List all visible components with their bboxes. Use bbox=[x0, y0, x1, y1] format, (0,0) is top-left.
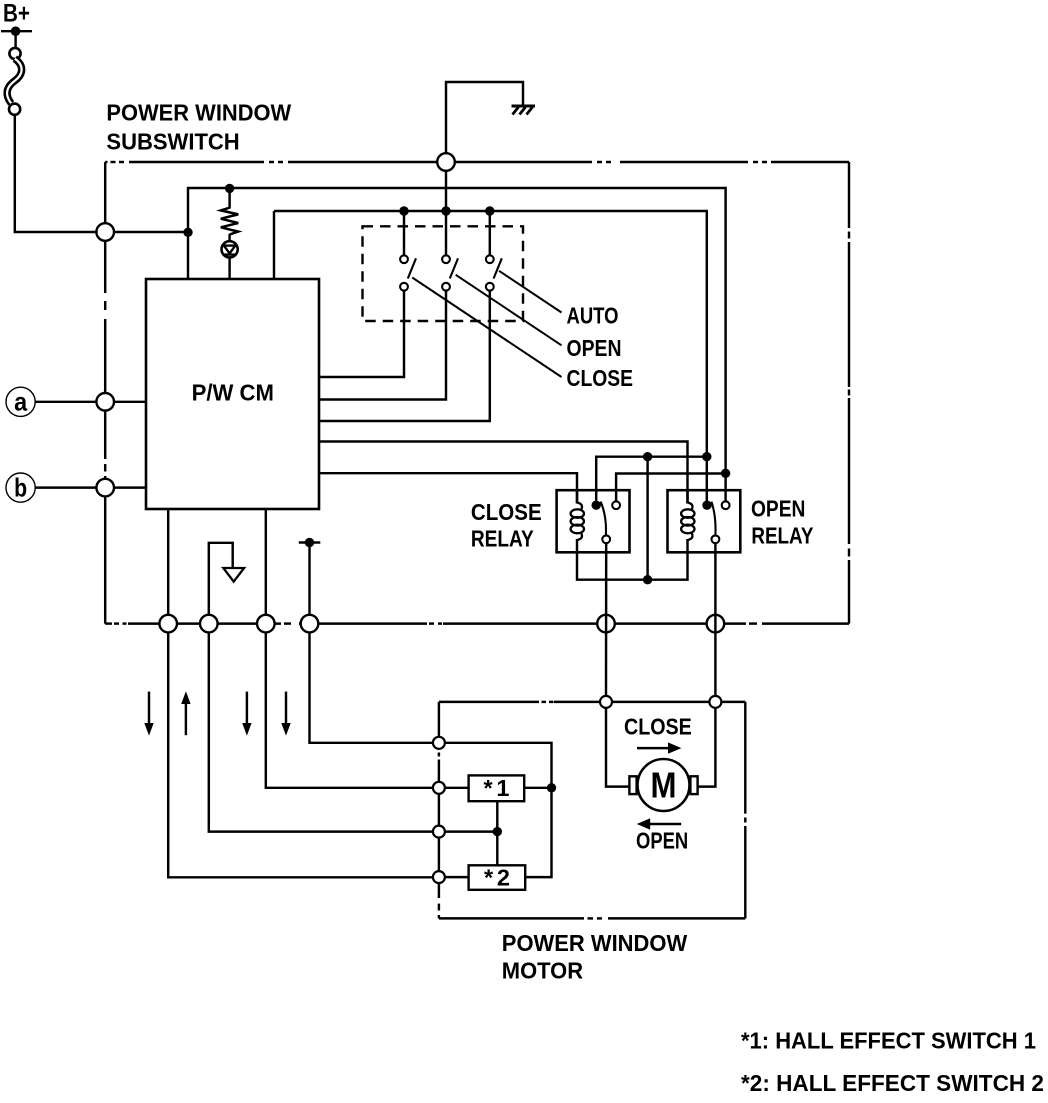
motor M1 right brush bbox=[690, 776, 697, 794]
junction dot (309.5,542.5) bbox=[305, 538, 314, 547]
subswitch boundary top (chain line) bbox=[105, 161, 849, 163]
wire P/W CM output col1 bbox=[167, 509, 169, 616]
OPEN switch S2 bottom contact bbox=[442, 283, 450, 291]
leader line CLOSE bbox=[412, 278, 561, 378]
wire relay NO bus y=473.5 bbox=[616, 474, 726, 502]
relay K2 moving contact bbox=[712, 535, 720, 543]
svg-text:P/W CM: P/W CM bbox=[192, 379, 274, 405]
wire connector b to P/W CM bbox=[35, 486, 146, 488]
junction dot (647.6,579.7) bbox=[643, 575, 652, 584]
wire bus y=211 (switch bus) bbox=[274, 211, 707, 504]
wire col4 to motor (hall supply) bbox=[310, 632, 434, 742]
wire fuse to subswitch border bbox=[15, 115, 97, 232]
connector circle col2 on bottom boundary bbox=[200, 615, 218, 633]
junction dot switch bus x=489.8 bbox=[485, 206, 494, 215]
junction dot (497.3,831.6) bbox=[493, 827, 502, 836]
label CLOSE bbox=[567, 365, 634, 391]
wire hall1-hall2 link bbox=[496, 801, 498, 865]
relay K2 coil bbox=[681, 490, 694, 553]
CLOSE switch S1 feed wire bbox=[403, 211, 405, 256]
CLOSE switch S1 output wire bbox=[319, 291, 404, 377]
svg-text:OPEN: OPEN bbox=[567, 335, 622, 361]
wire hall2 input bbox=[445, 876, 469, 878]
wire hall supply riser bbox=[445, 743, 552, 877]
svg-text:SUBSWITCH: SUBSWITCH bbox=[106, 129, 239, 155]
switch group dashed outline bbox=[363, 226, 524, 321]
CLOSE switch S1 arm bbox=[408, 258, 416, 278]
connector circle hall supply on motor boundary bbox=[433, 737, 445, 749]
current arrow 4 (down) bbox=[281, 692, 290, 736]
svg-text:MOTOR: MOTOR bbox=[502, 957, 583, 983]
motor boundary left (chain line) bbox=[438, 702, 440, 919]
connector circle a on boundary bbox=[96, 393, 114, 411]
wire stub down col4 bbox=[308, 543, 310, 617]
relay K1 common contact bbox=[592, 501, 601, 510]
connector circle B+ on boundary bbox=[96, 223, 114, 241]
wire relay common bus y=456.7 bbox=[596, 457, 707, 501]
svg-text:*2: *2 bbox=[484, 864, 510, 890]
wire LED to P/W CM bbox=[228, 257, 230, 280]
motor boundary right (chain line) bbox=[744, 702, 746, 919]
junction dot at B+ terminal bbox=[11, 26, 21, 36]
wire center riser x=647.6 bbox=[646, 457, 648, 580]
hall effect switch *2 box bbox=[469, 865, 526, 890]
OPEN switch S2 output wire bbox=[319, 291, 446, 400]
fuse F1 element (S-curve) bbox=[7, 59, 22, 104]
wire internal ground hook bbox=[209, 543, 233, 616]
relay K1 (CLOSE RELAY) box bbox=[557, 490, 630, 552]
current arrow 2 (up) bbox=[181, 691, 190, 735]
wire motor open-side bbox=[698, 708, 716, 787]
wire relay coil tie y=579.7 bbox=[577, 552, 688, 579]
motor M1 letter bbox=[651, 765, 677, 806]
motor boundary top (chain line) bbox=[439, 701, 745, 703]
relay K2 common contact bbox=[702, 501, 711, 510]
connector circle col1 on bottom boundary bbox=[159, 615, 177, 633]
wire motor close-side bbox=[606, 708, 629, 787]
junction dot (229.6,188) bbox=[225, 184, 234, 193]
connector a outer circle bbox=[6, 387, 35, 416]
wire stub with junction bbox=[299, 541, 321, 543]
label POWER WINDOW SUBSWITCH bbox=[106, 100, 292, 155]
ground arrow symbol bbox=[223, 568, 244, 582]
connector b letter bbox=[14, 472, 27, 502]
wire hall mid tap bbox=[445, 830, 497, 832]
svg-text:B+: B+ bbox=[3, 0, 30, 28]
connector circle open-side on motor boundary bbox=[709, 696, 721, 708]
AUTO switch S3 top contact bbox=[486, 255, 494, 263]
junction dot switch bus x=446 bbox=[441, 206, 450, 215]
motor boundary bottom (chain line) bbox=[439, 917, 745, 919]
resistor R1 (zigzag) bbox=[221, 208, 238, 235]
relay K1 armature bbox=[601, 502, 606, 535]
label OPEN RELAY bbox=[751, 496, 814, 549]
hall effect switch *2 label bbox=[484, 864, 510, 890]
wire col1 to motor (hall 2 low) bbox=[168, 632, 433, 877]
label OPEN (motor direction) bbox=[636, 827, 688, 853]
wire close-relay contact to motor bbox=[605, 543, 608, 696]
label P/W CM bbox=[192, 379, 274, 405]
close direction arrow bbox=[637, 742, 681, 753]
current arrow 3 (down) bbox=[242, 692, 251, 736]
current arrow 1 (down) bbox=[144, 692, 153, 736]
junction dot (706.8,456.7) bbox=[702, 452, 711, 461]
connector circle col3 on bottom boundary bbox=[257, 615, 275, 633]
connector circle b on boundary bbox=[96, 479, 114, 497]
svg-text:RELAY: RELAY bbox=[471, 526, 534, 552]
connector circle on top boundary bbox=[437, 153, 455, 171]
wire B+ terminal bar bbox=[1, 30, 32, 32]
label POWER WINDOW MOTOR bbox=[502, 930, 688, 984]
open direction arrow bbox=[637, 818, 681, 829]
relay K2 NO contact bbox=[722, 501, 730, 509]
OPEN switch S2 feed wire bbox=[445, 211, 447, 256]
svg-text:POWER WINDOW: POWER WINDOW bbox=[502, 930, 688, 956]
leader line OPEN bbox=[456, 275, 562, 346]
svg-text:POWER WINDOW: POWER WINDOW bbox=[106, 100, 292, 126]
svg-text:*1: HALL EFFECT SWITCH 1: *1: HALL EFFECT SWITCH 1 bbox=[741, 1027, 1036, 1053]
AUTO switch S3 output wire bbox=[319, 291, 490, 421]
footnote hall effect switch 2 bbox=[741, 1070, 1044, 1096]
wire top junction down to switch bus bbox=[445, 162, 447, 211]
svg-text:OPEN: OPEN bbox=[751, 496, 805, 522]
wire col3 to motor (hall 1) bbox=[266, 632, 433, 787]
wire hall1 input bbox=[445, 787, 469, 789]
junction dot (647.6,456.7) bbox=[643, 452, 652, 461]
hall effect switch *1 box bbox=[469, 775, 525, 801]
wire P/W CM to open-relay coil bbox=[319, 442, 688, 504]
CLOSE switch S1 top contact bbox=[400, 255, 408, 263]
svg-text:CLOSE: CLOSE bbox=[624, 714, 692, 740]
wire bus y=188 to open-relay contact bbox=[188, 188, 726, 474]
relay K1 coil bbox=[571, 490, 584, 553]
junction dot (551.5,787.8) bbox=[547, 783, 556, 792]
relay K1 moving contact bbox=[602, 535, 610, 543]
wire P/W CM to close-relay coil bbox=[319, 473, 577, 503]
relay K1 NO contact bbox=[612, 501, 620, 509]
connector circle open-motor on bottom boundary bbox=[707, 615, 725, 633]
motor M1 left brush bbox=[629, 776, 636, 794]
AUTO switch S3 bottom contact bbox=[486, 283, 494, 291]
subswitch boundary left (chain line) bbox=[104, 162, 106, 624]
connector circle hall2 on motor boundary bbox=[433, 871, 445, 883]
wire riser x=274 to P/W CM bbox=[273, 211, 275, 280]
wire connector a to P/W CM bbox=[35, 401, 146, 403]
label AUTO bbox=[567, 303, 619, 329]
OPEN switch S2 top contact bbox=[442, 255, 450, 263]
OPEN switch S2 arm bbox=[450, 258, 458, 278]
fuse F1 (bottom terminal) bbox=[9, 104, 20, 115]
wire open-relay NO riser bbox=[724, 474, 726, 502]
svg-text:a: a bbox=[14, 387, 27, 417]
ground (chassis) symbol bbox=[512, 106, 536, 115]
junction dot (725.6,473.5) bbox=[721, 469, 730, 478]
svg-text:AUTO: AUTO bbox=[567, 303, 619, 329]
footnote hall effect switch 1 bbox=[741, 1027, 1036, 1053]
AUTO switch S3 arm bbox=[494, 258, 502, 278]
fuse F1 (top terminal) bbox=[9, 48, 20, 59]
node B+ label bbox=[3, 0, 30, 28]
wire top junction to ground bbox=[446, 82, 523, 162]
wire P/W CM output col3 bbox=[265, 509, 267, 616]
relay K2 armature bbox=[711, 502, 715, 535]
AUTO switch S3 feed wire bbox=[489, 211, 491, 256]
svg-text:RELAY: RELAY bbox=[751, 522, 813, 548]
wire open-relay contact to motor bbox=[714, 543, 716, 696]
label OPEN bbox=[567, 335, 622, 361]
leader line AUTO bbox=[499, 271, 562, 313]
connector circle close-side on motor boundary bbox=[600, 696, 612, 708]
svg-text:CLOSE: CLOSE bbox=[471, 499, 542, 525]
connector a letter bbox=[14, 387, 27, 417]
subswitch boundary bottom (chain line) bbox=[105, 622, 849, 624]
svg-text:M: M bbox=[651, 765, 677, 806]
junction dot (188,232) bbox=[183, 228, 192, 237]
connector circle hall mid on motor boundary bbox=[433, 826, 445, 838]
wire B+ to fuse bbox=[14, 31, 16, 48]
svg-text:CLOSE: CLOSE bbox=[567, 365, 634, 391]
svg-text:b: b bbox=[14, 472, 27, 502]
connector circle col4 on bottom boundary bbox=[301, 615, 319, 633]
label CLOSE (motor direction) bbox=[624, 714, 692, 740]
junction dot switch bus x=404 bbox=[399, 206, 408, 215]
P/W CM control module box bbox=[146, 279, 319, 509]
motor M1 body bbox=[638, 759, 690, 811]
CLOSE switch S1 bottom contact bbox=[400, 283, 408, 291]
wire col2 to motor (hall mid) bbox=[209, 632, 433, 831]
wire resistor to LED bbox=[228, 234, 230, 242]
svg-text:*2: HALL EFFECT SWITCH 2: *2: HALL EFFECT SWITCH 2 bbox=[741, 1070, 1044, 1096]
svg-text:OPEN: OPEN bbox=[636, 827, 688, 853]
label CLOSE RELAY bbox=[471, 499, 542, 552]
wire B+ feed inside subswitch bbox=[114, 231, 188, 233]
connector circle close-motor on bottom boundary bbox=[597, 615, 615, 633]
relay K2 (OPEN RELAY) box bbox=[668, 490, 741, 552]
LED D1 (illumination lamp) bbox=[222, 241, 238, 257]
connector circle hall1 on motor boundary bbox=[433, 782, 445, 794]
subswitch boundary right (chain line) bbox=[848, 162, 850, 624]
wire riser x=188 bbox=[187, 187, 189, 280]
wire resistor feed bbox=[228, 188, 230, 209]
connector b outer circle bbox=[6, 473, 35, 502]
wire hall1 output to riser bbox=[524, 787, 551, 789]
hall effect switch *1 label bbox=[484, 775, 510, 801]
svg-text:*1: *1 bbox=[484, 775, 510, 801]
